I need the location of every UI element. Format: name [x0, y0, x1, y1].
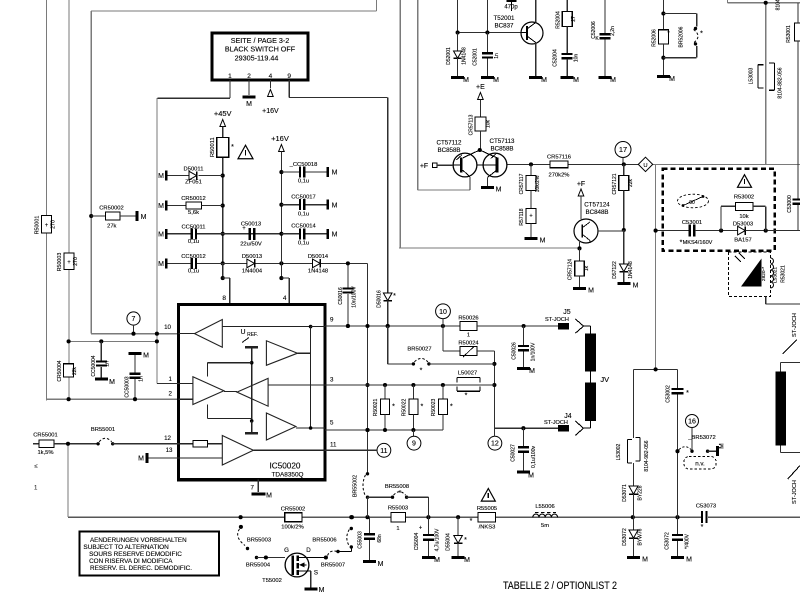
svg-text:M: M [528, 473, 534, 480]
svg-text:10k: 10k [739, 214, 748, 220]
svg-text:+F: +F [577, 181, 585, 188]
svg-text:ZF051: ZF051 [185, 180, 202, 186]
svg-text:8104-: 8104- [776, 0, 782, 10]
svg-text:M: M [493, 77, 499, 84]
svg-text:D50014: D50014 [308, 254, 329, 260]
svg-text:R53002: R53002 [734, 194, 754, 200]
svg-text:SOURS RESERVE DEMODIFIC: SOURS RESERVE DEMODIFIC [89, 551, 182, 558]
svg-text:M: M [540, 238, 546, 245]
svg-text:L53002: L53002 [616, 443, 622, 460]
svg-text:M: M [496, 187, 502, 194]
svg-text:0,1u: 0,1u [298, 240, 309, 246]
svg-text:M: M [686, 557, 692, 564]
svg-text:27: 27 [571, 16, 577, 22]
svg-text:/NKS3: /NKS3 [479, 524, 496, 530]
svg-text:*: * [393, 293, 396, 300]
svg-text:M: M [246, 101, 252, 108]
svg-text:8104-882-056: 8104-882-056 [778, 67, 784, 98]
svg-text:BR50027: BR50027 [407, 347, 431, 353]
svg-text:CC50014: CC50014 [291, 224, 316, 230]
svg-text:27k: 27k [107, 224, 116, 230]
svg-text:M: M [332, 202, 338, 209]
svg-text:M: M [642, 557, 648, 564]
svg-text:1: 1 [228, 73, 232, 80]
svg-text:9: 9 [287, 73, 291, 80]
svg-text:*: * [399, 490, 402, 497]
svg-text:CT57112: CT57112 [437, 140, 463, 147]
svg-text:*: * [680, 240, 683, 247]
svg-text:M: M [573, 77, 579, 84]
svg-text:BR55001: BR55001 [91, 427, 115, 433]
svg-text:R55003: R55003 [388, 506, 408, 512]
svg-text:1: 1 [169, 376, 173, 383]
svg-text:M: M [588, 288, 594, 295]
svg-text:*: * [392, 404, 395, 411]
svg-text:S: S [314, 570, 318, 577]
svg-text:7: 7 [251, 485, 255, 492]
svg-text:R50026: R50026 [458, 316, 478, 322]
svg-text:CR55001: CR55001 [33, 432, 58, 438]
svg-text:CR57116: CR57116 [547, 155, 571, 161]
svg-text:8104-982-056: 8104-982-056 [644, 440, 650, 471]
svg-text:M: M [719, 443, 726, 448]
svg-text:1: 1 [467, 333, 470, 339]
svg-text:D55004: D55004 [446, 533, 452, 551]
svg-text:90: 90 [689, 200, 695, 206]
svg-text:L53003: L53003 [749, 67, 755, 84]
svg-text:*: * [701, 524, 704, 531]
svg-text:0,1u/100v: 0,1u/100v [531, 446, 537, 468]
svg-text:10: 10 [164, 324, 171, 331]
svg-text:CC50017: CC50017 [291, 195, 316, 201]
svg-text:*: * [700, 31, 703, 38]
svg-text:CR50002: CR50002 [99, 206, 124, 212]
svg-text:BR55008: BR55008 [385, 484, 409, 490]
svg-text:3: 3 [330, 377, 334, 384]
svg-text:*: * [470, 518, 473, 525]
svg-text:C52004: C52004 [553, 49, 559, 67]
svg-text:22k: 22k [72, 366, 78, 375]
svg-text:AENDERUNGEN VORBEHALTEN: AENDERUNGEN VORBEHALTEN [90, 537, 187, 544]
svg-text:CT57113: CT57113 [490, 138, 516, 145]
svg-text:BR52006: BR52006 [678, 26, 684, 47]
svg-text:1k,5%: 1k,5% [37, 450, 53, 456]
svg-text:0,1u: 0,1u [188, 268, 199, 274]
svg-text:M: M [332, 231, 338, 238]
svg-text:C52001: C52001 [473, 48, 479, 66]
svg-text:R52006: R52006 [652, 29, 658, 47]
svg-text:M: M [434, 557, 440, 564]
svg-text:BC858B: BC858B [490, 145, 513, 152]
svg-text:*: * [686, 390, 689, 397]
svg-text:BR55002: BR55002 [353, 475, 359, 497]
svg-text:BR55003: BR55003 [247, 538, 271, 544]
svg-text:_BR53072: _BR53072 [687, 435, 715, 441]
svg-text:C53001: C53001 [682, 220, 702, 226]
svg-text:+F: +F [420, 163, 428, 170]
svg-text:L50027: L50027 [458, 371, 477, 377]
svg-text:1N4148: 1N4148 [308, 268, 328, 274]
svg-text:G: G [284, 547, 289, 554]
svg-text:+E: +E [476, 84, 485, 91]
svg-text:R55005: R55005 [477, 506, 497, 512]
svg-text:R50003: R50003 [57, 253, 63, 272]
svg-text:CC50003: CC50003 [124, 376, 130, 397]
svg-text:9: 9 [330, 317, 334, 324]
svg-text:0,1u: 0,1u [298, 179, 309, 185]
svg-text:8: 8 [222, 295, 226, 302]
svg-text:*: * [421, 404, 424, 411]
svg-text:4,7u/100V: 4,7u/100V [434, 528, 440, 551]
svg-text:D57122: D57122 [612, 261, 618, 279]
svg-text:CR57117: CR57117 [519, 173, 525, 194]
svg-text:+: + [67, 260, 71, 266]
svg-text:CC50004: CC50004 [91, 355, 97, 376]
svg-text:11: 11 [330, 442, 337, 449]
svg-text:C55004: C55004 [414, 533, 420, 551]
svg-text:*: * [667, 31, 670, 37]
svg-text:C50016: C50016 [338, 287, 344, 305]
svg-text:4: 4 [269, 73, 273, 80]
svg-text:R50021: R50021 [373, 399, 379, 417]
svg-text:C53000: C53000 [787, 195, 793, 213]
svg-text:+16V: +16V [271, 134, 289, 143]
svg-text:_CC50018: _CC50018 [289, 162, 318, 168]
svg-text:T55002: T55002 [262, 578, 282, 584]
svg-text:U: U [643, 163, 647, 169]
svg-text:+45V: +45V [214, 109, 232, 118]
svg-text:5m: 5m [541, 523, 549, 529]
svg-text:1k: 1k [584, 265, 590, 271]
svg-text:L53021: L53021 [773, 267, 779, 283]
svg-text:CR57113: CR57113 [469, 114, 475, 135]
svg-text:L55006: L55006 [535, 504, 554, 510]
svg-text:≤: ≤ [34, 464, 38, 470]
svg-text:M: M [464, 557, 470, 564]
svg-text:M: M [332, 170, 338, 177]
svg-text:M: M [529, 368, 535, 375]
svg-text:CC50012: CC50012 [181, 254, 206, 260]
svg-text:M: M [158, 261, 164, 268]
svg-text:270k2%: 270k2% [549, 173, 570, 179]
svg-text:2: 2 [247, 73, 251, 80]
svg-text:M: M [633, 283, 639, 290]
svg-text:16: 16 [688, 419, 696, 426]
svg-text:M: M [158, 203, 164, 210]
svg-text:J5: J5 [563, 309, 571, 316]
svg-text:22k: 22k [628, 178, 634, 187]
svg-text:9: 9 [412, 441, 416, 448]
svg-text:BR55004: BR55004 [246, 563, 271, 569]
svg-text:ST-JOCH: ST-JOCH [544, 420, 568, 426]
svg-text:R53001: R53001 [786, 25, 792, 43]
svg-text:M: M [143, 353, 149, 360]
svg-text:M: M [158, 231, 164, 238]
svg-text:M: M [610, 77, 616, 84]
svg-text:R50024: R50024 [458, 340, 479, 346]
svg-text:BY228: BY228 [638, 485, 644, 500]
svg-text:*: * [231, 144, 234, 151]
svg-text:100k/2%: 100k/2% [281, 524, 304, 530]
svg-text:K: K [595, 36, 599, 42]
svg-text:+16V: +16V [262, 108, 279, 115]
svg-text:C53073: C53073 [696, 504, 716, 510]
svg-text:D53003: D53003 [733, 222, 753, 228]
svg-text:CR57121: CR57121 [612, 173, 618, 194]
svg-text:C50027: C50027 [511, 444, 517, 462]
svg-text:ST-JOCH: ST-JOCH [792, 313, 798, 337]
svg-text:BC858B: BC858B [437, 147, 460, 154]
svg-text:BA157: BA157 [734, 238, 751, 244]
svg-text:C53072: C53072 [665, 532, 671, 550]
svg-text:1n: 1n [138, 376, 144, 382]
svg-text:22u/50V: 22u/50V [240, 241, 262, 247]
svg-text:BC837: BC837 [495, 23, 514, 30]
svg-text:JV: JV [600, 375, 609, 384]
svg-text:R50022: R50022 [401, 399, 407, 417]
svg-text:1: 1 [396, 526, 399, 532]
svg-text:M: M [109, 379, 115, 386]
svg-text:ST-JOCH: ST-JOCH [792, 480, 798, 504]
svg-text:BLACK SWITCH OFF: BLACK SWITCH OFF [225, 45, 296, 54]
svg-text:CR55002: CR55002 [281, 507, 306, 513]
svg-text:*: * [450, 404, 453, 411]
svg-text:0,1u: 0,1u [188, 239, 199, 245]
svg-text:+: + [529, 214, 533, 220]
svg-text:IC50020: IC50020 [270, 462, 301, 471]
svg-text:CT57124: CT57124 [584, 202, 610, 209]
svg-text:68n: 68n [377, 534, 383, 543]
svg-text:CR50004: CR50004 [57, 360, 63, 381]
svg-text:D50011: D50011 [184, 167, 204, 173]
svg-text:M: M [669, 76, 675, 83]
svg-text:R50011: R50011 [210, 137, 216, 157]
svg-text:0,1u: 0,1u [298, 211, 309, 217]
svg-text:T52001: T52001 [494, 15, 516, 22]
svg-text:12: 12 [164, 435, 171, 442]
svg-text:1n: 1n [104, 361, 110, 367]
svg-text:1: 1 [34, 486, 38, 492]
svg-text:2820-*: 2820-* [761, 267, 767, 281]
svg-text:*: * [464, 537, 467, 544]
svg-text:1n/100V: 1n/100V [530, 342, 536, 361]
svg-text:D53072: D53072 [622, 528, 628, 546]
svg-text:10n/100V: 10n/100V [352, 286, 358, 308]
svg-text:BYW76: BYW76 [638, 528, 644, 545]
svg-text:M: M [141, 214, 147, 221]
svg-text:1N4004: 1N4004 [242, 268, 263, 274]
svg-text:C50026: C50026 [512, 342, 518, 360]
svg-text:M: M [266, 493, 272, 500]
svg-text:D50013: D50013 [242, 254, 262, 260]
svg-text:29305-119.44: 29305-119.44 [235, 54, 279, 63]
svg-text:*: * [465, 393, 468, 400]
svg-text:M: M [138, 456, 144, 463]
svg-text:C55003: C55003 [358, 531, 364, 549]
svg-text:TABELLE 2 / OPTIONLIST 2: TABELLE 2 / OPTIONLIST 2 [503, 580, 617, 592]
svg-text:2,2n: 2,2n [610, 26, 616, 36]
svg-text:5: 5 [330, 420, 334, 427]
svg-text:4: 4 [283, 295, 287, 302]
svg-text:10k: 10k [485, 119, 491, 128]
svg-text:10: 10 [439, 309, 447, 316]
svg-text:M: M [158, 173, 164, 180]
svg-text:R57118: R57118 [519, 208, 525, 225]
svg-text:10k/2%: 10k/2% [535, 175, 541, 192]
svg-text:ST-JOCH: ST-JOCH [545, 317, 569, 323]
svg-text:+: + [45, 223, 49, 229]
svg-text:C50013: C50013 [241, 222, 261, 228]
svg-text:11: 11 [380, 448, 387, 455]
svg-text:n.v.: n.v. [695, 461, 705, 468]
svg-text:M: M [463, 77, 469, 84]
svg-text:*: * [420, 368, 423, 375]
svg-text:1N4148: 1N4148 [628, 261, 634, 279]
svg-text:12: 12 [491, 441, 499, 448]
svg-text:RESERV. EL DEREC. DEMODIFIC.: RESERV. EL DEREC. DEMODIFIC. [90, 565, 192, 572]
svg-text:J4: J4 [564, 413, 572, 420]
svg-text:+: + [419, 526, 423, 532]
svg-text:MKS4/160V: MKS4/160V [683, 240, 713, 246]
svg-text:1n: 1n [494, 53, 500, 59]
svg-text:U: U [240, 329, 245, 336]
svg-text:R52004: R52004 [556, 11, 562, 29]
svg-text:D: D [306, 547, 311, 554]
svg-text:1N4148: 1N4148 [462, 47, 468, 65]
svg-text:BR55007: BR55007 [321, 563, 345, 569]
svg-text:270: 270 [51, 220, 57, 229]
svg-text:TDA8350Q: TDA8350Q [272, 472, 304, 479]
svg-text:D53071: D53071 [622, 484, 628, 502]
svg-text:R50001: R50001 [35, 216, 41, 235]
svg-text:5,6k: 5,6k [188, 210, 199, 216]
svg-text:7: 7 [132, 316, 136, 323]
svg-text:M: M [541, 77, 547, 84]
svg-text:13: 13 [166, 447, 173, 454]
svg-text:D50016: D50016 [377, 290, 383, 308]
svg-text:2: 2 [169, 391, 173, 398]
svg-text:M: M [319, 587, 325, 594]
svg-text:CR57124: CR57124 [568, 259, 574, 280]
svg-text:CON RISERVA DI MODIFICA: CON RISERVA DI MODIFICA [89, 558, 173, 565]
svg-text:10n: 10n [574, 54, 580, 63]
svg-text:C53002: C53002 [666, 385, 672, 403]
svg-text:BC848B: BC848B [585, 209, 608, 216]
svg-text:BR55006: BR55006 [312, 538, 336, 544]
svg-text:M: M [378, 561, 384, 568]
svg-text:17: 17 [619, 145, 627, 154]
svg-text:CC50011: CC50011 [181, 224, 205, 230]
svg-text:CR50012: CR50012 [181, 196, 206, 202]
svg-text:D52001: D52001 [446, 47, 452, 65]
svg-text:270: 270 [73, 257, 79, 266]
svg-text:R50023: R50023 [431, 399, 437, 417]
svg-text:*/400V: */400V [685, 533, 691, 549]
svg-text:R53021: R53021 [781, 265, 787, 283]
